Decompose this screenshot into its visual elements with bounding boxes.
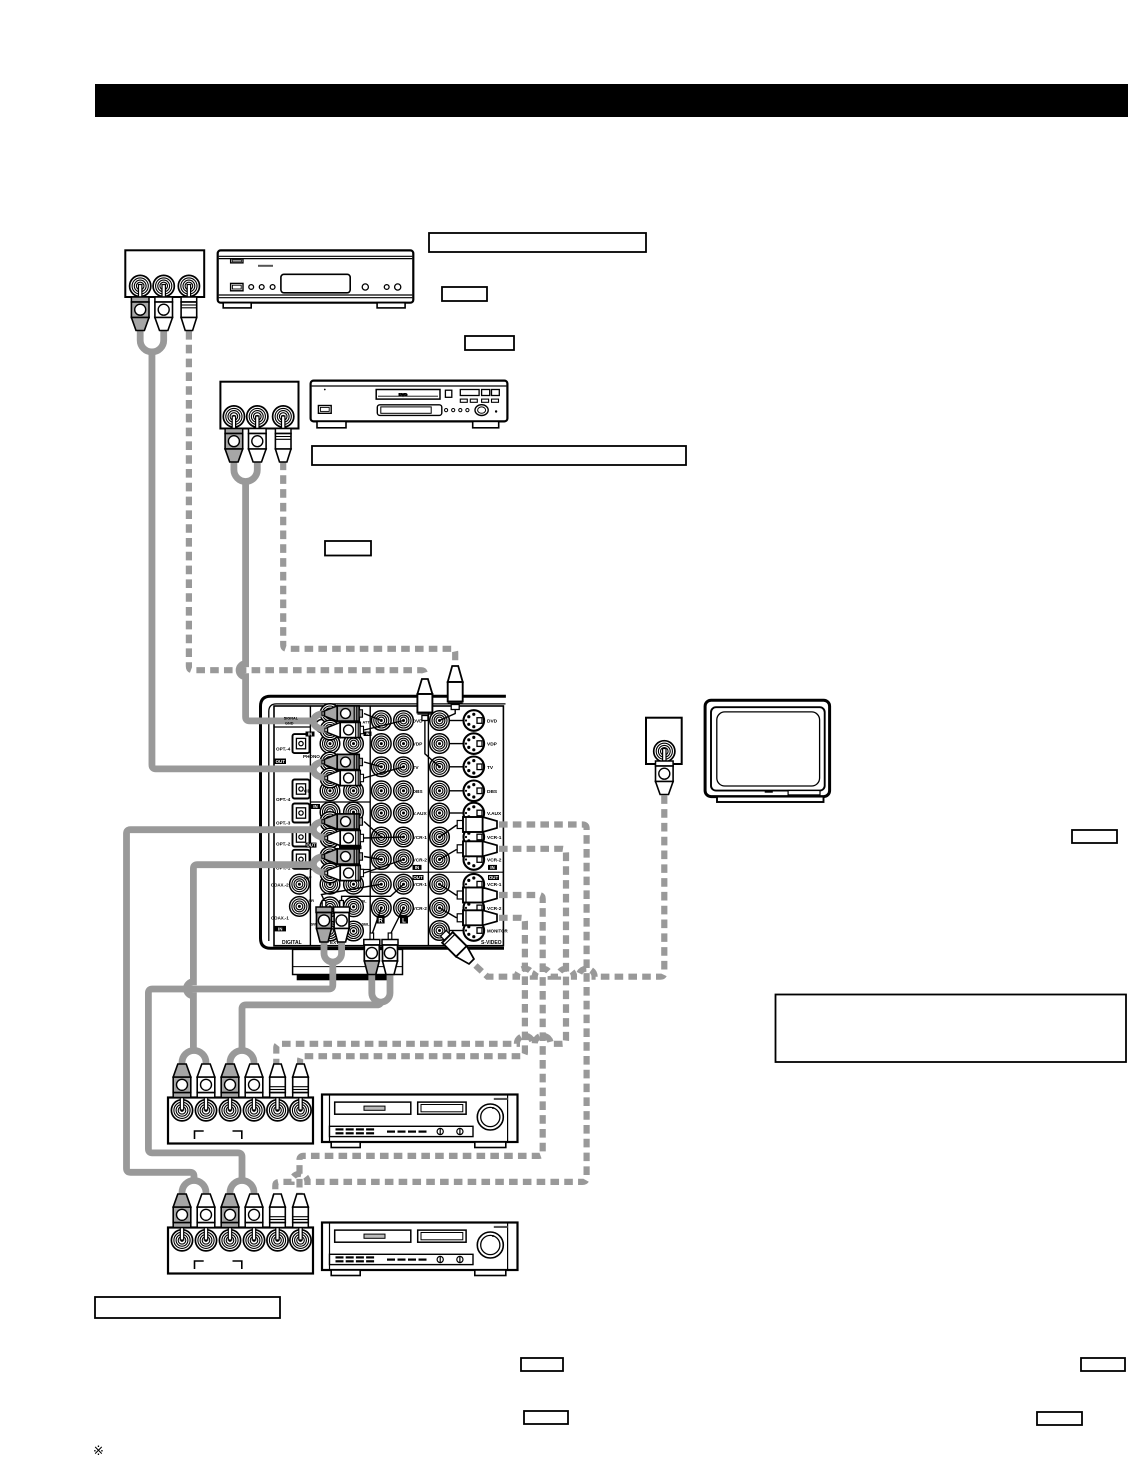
svg-text:TV: TV: [487, 765, 494, 771]
svg-text:DBS: DBS: [413, 789, 424, 795]
svg-text:IN: IN: [313, 804, 317, 809]
svg-text:L: L: [402, 918, 406, 924]
svg-text:MONITOR: MONITOR: [487, 929, 508, 934]
svg-text:IN: IN: [278, 926, 282, 931]
svg-text:VCR-2: VCR-2: [487, 906, 502, 912]
svg-text:IN: IN: [366, 732, 370, 736]
svg-text:OUT: OUT: [413, 875, 423, 880]
svg-text:OUT: OUT: [489, 875, 499, 880]
svg-text:VCR-1: VCR-1: [487, 882, 502, 888]
svg-text:OUT: OUT: [276, 759, 286, 764]
svg-text:VDP: VDP: [487, 742, 498, 748]
svg-text:DIGITAL: DIGITAL: [282, 940, 302, 946]
svg-text:COAX.-2: COAX.-2: [271, 882, 289, 887]
svg-text:DVD: DVD: [399, 392, 408, 397]
svg-text:IN: IN: [308, 731, 312, 736]
svg-text:VCR-2: VCR-2: [413, 906, 428, 912]
svg-text:DVD: DVD: [487, 719, 498, 725]
svg-text:VCR-1: VCR-1: [487, 835, 502, 841]
svg-text:V.AUX: V.AUX: [413, 811, 428, 817]
svg-text:TV: TV: [413, 765, 420, 771]
svg-text:CD: CD: [304, 789, 311, 794]
svg-text:SW: SW: [304, 875, 312, 880]
svg-text:VCR-2: VCR-2: [413, 858, 428, 864]
svg-text:SBL: SBL: [362, 922, 371, 927]
svg-text:IN: IN: [490, 865, 494, 870]
svg-text:DBS: DBS: [487, 789, 498, 795]
svg-text:SIGNAL: SIGNAL: [284, 717, 299, 721]
svg-text:ATT: ATT: [363, 721, 371, 725]
svg-text:VDP: VDP: [413, 742, 424, 748]
svg-text:OPT.-3: OPT.-3: [276, 820, 291, 825]
svg-text:VCR-1: VCR-1: [413, 835, 428, 841]
svg-text:VCR-1: VCR-1: [413, 882, 428, 888]
svg-text:PHONO: PHONO: [303, 754, 320, 759]
svg-text:※: ※: [93, 1443, 104, 1458]
svg-text:S-VIDEO: S-VIDEO: [481, 940, 502, 946]
svg-text:OPT.-4: OPT.-4: [276, 747, 291, 752]
svg-text:OUT: OUT: [306, 843, 316, 848]
svg-text:SL: SL: [362, 899, 368, 904]
svg-text:GND: GND: [285, 722, 294, 726]
svg-text:V.AUX: V.AUX: [487, 811, 502, 817]
svg-text:IN: IN: [415, 865, 419, 870]
svg-text:OPT.-4: OPT.-4: [276, 797, 291, 802]
svg-text:SR: SR: [309, 898, 315, 903]
svg-text:VCR-2: VCR-2: [487, 858, 502, 864]
svg-text:OPT.-2: OPT.-2: [276, 842, 291, 847]
svg-text:R: R: [378, 918, 383, 924]
svg-text:COAX.-1: COAX.-1: [271, 916, 289, 921]
